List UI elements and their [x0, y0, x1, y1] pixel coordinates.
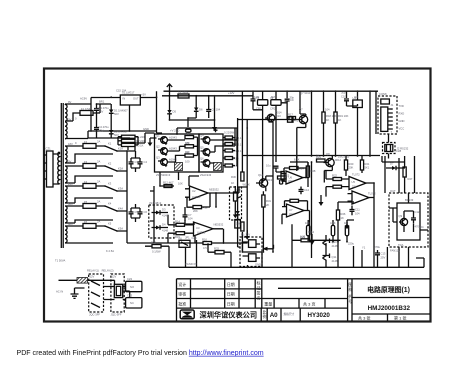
svg-text:K4: K4 [108, 202, 112, 206]
svg-text:IC1: IC1 [354, 95, 359, 99]
secondary winding S2 [65, 122, 67, 139]
svg-text:CZ2: CZ2 [127, 277, 133, 281]
svg-text:50V: 50V [114, 112, 119, 116]
drawing frame border [44, 69, 431, 322]
svg-text:9012: 9012 [335, 158, 341, 162]
svg-text:LM358: LM358 [197, 231, 206, 235]
svg-text:R28: R28 [311, 169, 316, 173]
resistor R19 [334, 112, 337, 123]
arrow node [262, 247, 268, 251]
svg-text:5K1: 5K1 [365, 166, 370, 170]
svg-text:U2: U2 [192, 189, 196, 193]
resistor R22 [333, 178, 342, 181]
relay dashed box RL2 [111, 274, 124, 312]
wire mid rails [290, 156, 312, 258]
svg-text:CR2: CR2 [270, 107, 276, 111]
switch K4 [105, 206, 127, 220]
bias resistor R8 [225, 143, 233, 146]
svg-text:Q7: Q7 [299, 108, 303, 112]
svg-text:K1: K1 [108, 142, 112, 146]
capacitor C10 [344, 99, 358, 106]
capacitor C7 [183, 211, 188, 221]
svg-text:U5: U5 [352, 180, 356, 184]
svg-text:324: 324 [352, 185, 357, 189]
wire bottom path [195, 229, 248, 243]
svg-text:D3: D3 [162, 208, 166, 212]
wire feedback [187, 193, 216, 207]
wire crystal bottom [238, 106, 292, 122]
capacitor C16 [274, 166, 279, 172]
capsule resistor RC2 [331, 225, 334, 236]
rail resistor RA [241, 172, 244, 181]
svg-text:AC9V: AC9V [80, 97, 87, 101]
svg-text:10K: 10K [236, 222, 241, 226]
svg-text:324: 324 [289, 212, 294, 216]
svg-text:R26: R26 [341, 212, 346, 216]
svg-text:1K: 1K [338, 118, 341, 122]
svg-text:C13: C13 [381, 252, 386, 256]
svg-text:电路原理图(1): 电路原理图(1) [367, 285, 410, 294]
svg-text:R19 10K: R19 10K [338, 114, 349, 118]
transistor Q9 [400, 218, 407, 225]
svg-text:Q8: Q8 [326, 152, 330, 156]
transistor pair Q11 [323, 254, 330, 261]
svg-text:F1 0.5A: F1 0.5A [81, 107, 91, 111]
stub component CZ [288, 117, 294, 122]
svg-text:104: 104 [188, 217, 193, 221]
secondary winding S4 [65, 166, 67, 183]
feedback resistor R24c [290, 199, 299, 202]
svg-text:NC: NC [130, 301, 134, 305]
svg-text:Q1: Q1 [156, 134, 160, 138]
svg-text:100: 100 [185, 159, 190, 163]
svg-text:NE5532: NE5532 [209, 188, 219, 192]
bias resistor R10 [225, 157, 233, 160]
diode D2 [109, 130, 113, 134]
svg-text:F4: F4 [84, 180, 88, 184]
resistor R12 [164, 185, 172, 188]
resistor R32 [152, 245, 161, 248]
transformer core [61, 103, 63, 248]
svg-text:T1 50VA: T1 50VA [55, 259, 65, 263]
svg-text:CZ5: CZ5 [192, 236, 198, 240]
bias resistor R11 [225, 164, 233, 167]
svg-text:IN: IN [123, 97, 126, 101]
wire right bus verticals [300, 91, 376, 156]
svg-text:F6: F6 [84, 220, 88, 224]
resistor R16 [203, 242, 212, 245]
wire q12 links [263, 176, 273, 252]
svg-text:324: 324 [288, 179, 293, 183]
svg-text:TXD: TXD [399, 104, 404, 108]
diode D1 [109, 110, 113, 114]
secondary winding S1 [65, 105, 67, 122]
svg-text:Q7 9013: Q7 9013 [300, 91, 311, 95]
capacitor C11 [350, 206, 355, 216]
wire bank left interconnect [168, 137, 198, 162]
svg-text:CON8: CON8 [379, 92, 387, 96]
op-amp U6 [286, 171, 303, 184]
svg-text:R27: R27 [408, 177, 413, 181]
bottom rail [177, 266, 425, 268]
svg-text:C14: C14 [304, 188, 309, 192]
junction dots scatter [90, 90, 375, 268]
svg-text:2A: 2A [97, 140, 100, 144]
wire rail risers [186, 240, 425, 267]
svg-text:NE5532: NE5532 [214, 223, 224, 227]
company logo [180, 310, 194, 319]
wire sense lines [160, 172, 199, 186]
svg-text:R20: R20 [349, 162, 354, 166]
transistor pair Q10 [323, 239, 330, 246]
secondary winding S3 [65, 146, 67, 163]
svg-text:48V: 48V [68, 222, 73, 226]
output dashed box [389, 193, 428, 247]
title block right section dividers [352, 298, 430, 322]
svg-text:Q9: Q9 [399, 214, 403, 218]
svg-text:1K5: 1K5 [285, 174, 290, 178]
svg-text:设计: 设计 [178, 281, 186, 287]
resistor R17 [289, 117, 296, 120]
fuse F1 [80, 111, 93, 116]
svg-text:样: 样 [348, 286, 352, 292]
svg-text:1K: 1K [316, 154, 319, 158]
svg-text:R18 10K: R18 10K [326, 114, 337, 118]
capsule resistor RC1 [307, 225, 310, 236]
resistor network RN1 [122, 135, 136, 138]
FOOTER [17, 350, 264, 357]
ic box U4 [353, 100, 363, 108]
rail wire A [238, 118, 241, 247]
svg-text:A1943: A1943 [169, 136, 177, 140]
svg-text:2SA1943: 2SA1943 [200, 173, 212, 177]
transistor Q12 [259, 179, 267, 187]
svg-text:9014: 9014 [308, 230, 314, 234]
svg-text:220u: 220u [348, 242, 354, 246]
svg-text:C2 470u: C2 470u [99, 125, 110, 129]
svg-text:CZ1: CZ1 [46, 147, 52, 151]
relay coil RL2 [114, 284, 122, 297]
svg-text:12M: 12M [254, 95, 260, 99]
secondary winding S7 [65, 226, 67, 243]
tap wires S7 [65, 226, 83, 243]
svg-text:JP1: JP1 [185, 236, 190, 240]
svg-text:D7: D7 [390, 162, 394, 166]
svg-text:9013: 9013 [266, 178, 272, 182]
svg-text:2A: 2A [97, 200, 100, 204]
svg-text:4148: 4148 [162, 214, 168, 218]
fuse F6 [83, 224, 96, 229]
resistor R25 [301, 239, 310, 242]
svg-text:J1: J1 [391, 103, 394, 107]
svg-text:36V: 36V [68, 202, 73, 206]
switch K5 [105, 226, 127, 243]
riser wire [269, 122, 274, 252]
svg-text:472: 472 [294, 119, 299, 123]
svg-text:24V: 24V [68, 182, 73, 186]
transistor Q4 [203, 137, 210, 144]
wire cap column [97, 104, 112, 138]
op-amp U2 [190, 186, 209, 200]
capacitor C4 [138, 158, 143, 168]
svg-text:2SC5200×3: 2SC5200×3 [156, 173, 171, 177]
capsule L2 [186, 129, 192, 132]
capacitor C2 [94, 123, 99, 134]
node plus [214, 128, 218, 132]
svg-text:+12V: +12V [228, 91, 235, 95]
transistor Q7 [299, 115, 307, 123]
diode D7 [392, 166, 396, 170]
resistor R20 [344, 160, 347, 170]
diode D4 [156, 226, 160, 230]
svg-text:GND: GND [143, 127, 149, 131]
svg-text:审核: 审核 [178, 291, 186, 297]
op-amp U7 [287, 204, 305, 217]
ground rail [245, 236, 250, 240]
svg-text:12V: 12V [112, 275, 117, 279]
wire resistor bottoms [297, 123, 336, 156]
svg-text:F2: F2 [84, 140, 88, 144]
title block row line 1 [177, 288, 262, 290]
svg-text:20K: 20K [349, 166, 354, 170]
resistor R14 [176, 223, 185, 226]
svg-text:GND: GND [399, 119, 405, 123]
title block outline [177, 279, 431, 321]
svg-text:C8 104: C8 104 [212, 108, 221, 112]
svg-text:深圳华谊仪表公司: 深圳华谊仪表公司 [200, 310, 258, 319]
svg-text:K6: K6 [179, 236, 183, 240]
tap wires upper [65, 104, 88, 139]
terminal box NO [126, 281, 142, 291]
svg-text:RELAY(1) RELAY(2): RELAY(1) RELAY(2) [87, 269, 114, 273]
svg-text:Q2: Q2 [156, 145, 160, 149]
primary winding [58, 152, 60, 184]
svg-text:日期: 日期 [227, 281, 235, 287]
svg-text:RL-12V: RL-12V [241, 233, 250, 237]
capacitor C12 [411, 214, 416, 224]
svg-text:K5A: K5A [118, 227, 123, 231]
title block row line 2 [177, 298, 348, 300]
svg-text:PGND 0V: PGND 0V [185, 262, 197, 266]
wire cap pair 2 [131, 204, 140, 222]
svg-text:日期: 日期 [227, 300, 235, 306]
resistor R27 [403, 167, 406, 177]
wire capsule links [308, 220, 347, 242]
svg-text:第 1 张: 第 1 张 [394, 314, 406, 320]
resistor R15 [176, 232, 185, 235]
svg-text:K2A: K2A [118, 167, 123, 171]
svg-text:18V: 18V [68, 142, 73, 146]
svg-text:10u: 10u [266, 164, 271, 168]
svg-text:IN4148×2: IN4148×2 [150, 201, 162, 205]
rail wire B [242, 91, 262, 252]
svg-text:30p: 30p [341, 90, 346, 94]
svg-text:Y1: Y1 [362, 246, 366, 250]
svg-text:TL072: TL072 [352, 173, 360, 177]
svg-text:名: 名 [257, 295, 261, 301]
title block right narrow column [348, 279, 352, 321]
resistor R34 [281, 172, 284, 181]
transistor Q2 [161, 148, 168, 155]
svg-text:25V: 25V [99, 129, 104, 133]
svg-text:F3: F3 [84, 160, 88, 164]
emitter arrows [165, 142, 211, 169]
connector dashed box [378, 96, 397, 134]
ground pot [233, 215, 238, 219]
ground regulator [148, 143, 153, 147]
resistor R33 [215, 251, 224, 254]
svg-text:GND: GND [255, 263, 261, 267]
resistor R28 vertical [306, 166, 309, 177]
svg-text:20K: 20K [193, 209, 198, 213]
wire cap to gnd [185, 207, 195, 224]
capacitor C6 [138, 208, 143, 218]
wire connector stubs [44, 152, 60, 184]
base resistor R6 [185, 154, 194, 157]
svg-text:Q6: Q6 [200, 157, 204, 161]
svg-text:重量: 重量 [264, 301, 272, 307]
transistor Q5 [203, 149, 210, 156]
wire bus drops [170, 96, 215, 127]
mains connector CZ1 [47, 151, 54, 187]
wire regulator gnd pin [129, 105, 131, 131]
socket dashed box [383, 143, 396, 154]
junction dots [110, 130, 112, 132]
wire r25 link [292, 211, 341, 241]
resistor R26 vertical [336, 210, 339, 220]
ground mid [345, 226, 350, 230]
wire r26 [338, 202, 354, 242]
svg-text:TDA: TDA [398, 243, 404, 247]
wire mains entry [59, 279, 99, 281]
svg-text:Q5: Q5 [200, 146, 204, 150]
svg-text:共 3 张: 共 3 张 [358, 314, 370, 320]
capsule resistor RC3 [345, 225, 348, 236]
fuse FU1 [77, 278, 88, 284]
svg-text:日期: 日期 [227, 291, 235, 297]
relay dashed box [240, 237, 262, 267]
svg-text:CR1: CR1 [256, 107, 262, 111]
svg-text:K2: K2 [108, 162, 112, 166]
svg-text:2A: 2A [97, 160, 100, 164]
resistor R23 [333, 185, 342, 188]
svg-text:CZ8: CZ8 [396, 149, 402, 153]
capacitor C14 [299, 187, 304, 195]
top bus wire [162, 91, 378, 96]
ground u6 [319, 202, 324, 206]
crystal X2 [271, 100, 281, 106]
svg-text:OUT: OUT [390, 189, 396, 193]
fuse F2 [83, 144, 96, 149]
resistor R18 [322, 112, 325, 123]
rail resistor RB [241, 222, 244, 231]
svg-text:4148: 4148 [332, 244, 338, 248]
zener D6 [194, 108, 198, 112]
svg-text:BD139: BD139 [405, 198, 414, 202]
title block column lines [191, 279, 262, 308]
diode D5 [167, 110, 171, 114]
svg-text:Q13: Q13 [276, 114, 282, 118]
wire r32 [145, 246, 177, 267]
switch K3 [105, 186, 127, 198]
svg-text:C12: C12 [415, 210, 420, 214]
inner block W1 [397, 203, 420, 240]
potentiometer RP1 [234, 192, 238, 201]
wire current sense path [145, 187, 247, 243]
tap wires S6 [65, 206, 83, 223]
wire lower rail [88, 131, 157, 138]
emitter resistor RE2 [214, 163, 222, 171]
wire bank right interconnect [210, 140, 225, 163]
base resistor R4 [185, 136, 194, 139]
svg-text:10K: 10K [178, 182, 183, 186]
svg-text:C10: C10 [341, 95, 346, 99]
transistor Q3 [161, 159, 168, 166]
feedback resistor R24 [290, 167, 299, 170]
crystal X1 [258, 100, 268, 106]
svg-text:D4: D4 [162, 223, 166, 227]
svg-text:R31: R31 [266, 199, 271, 203]
svg-text:CZ3: CZ3 [127, 293, 133, 297]
fuse F5 [83, 204, 96, 209]
svg-text:C4: C4 [144, 160, 148, 164]
svg-text:A1943: A1943 [169, 147, 177, 151]
socket J2 [385, 145, 393, 152]
wire mid vertical [150, 186, 154, 243]
secondary winding S6 [65, 206, 67, 223]
svg-text:2A: 2A [97, 220, 100, 224]
title block row line 3 [177, 307, 348, 309]
signature line [278, 287, 341, 289]
ground bus [212, 127, 217, 131]
svg-text:0.22/5W: 0.22/5W [224, 131, 234, 135]
relay dashed box RL1 [89, 274, 104, 312]
svg-text:4148: 4148 [162, 229, 168, 233]
wire dashed box feeds [389, 193, 428, 258]
svg-text:2K: 2K [266, 203, 269, 207]
bias resistor R9 [225, 149, 233, 152]
svg-text:+V 2SD: +V 2SD [170, 129, 179, 133]
svg-text:2A: 2A [97, 180, 100, 184]
svg-text:C15 104: C15 104 [116, 89, 127, 93]
ground arrow [310, 241, 315, 245]
svg-text:C6: C6 [144, 210, 148, 214]
capacitor C9 [285, 99, 290, 106]
contact pair B [249, 254, 257, 262]
contact box K6 [179, 240, 190, 247]
wire top feed [65, 98, 120, 132]
svg-text:250V: 250V [94, 107, 100, 111]
svg-text:批准: 批准 [178, 300, 186, 306]
resistor R31 [262, 195, 265, 207]
svg-text:470u: 470u [374, 245, 380, 249]
svg-text:规格尺寸: 规格尺寸 [284, 312, 295, 316]
regulator U1 [120, 95, 140, 105]
svg-text:BR1: BR1 [99, 100, 105, 104]
fuse F3 [83, 164, 96, 169]
capacitor C1 [94, 104, 99, 115]
wire right section rail [242, 134, 388, 171]
bank frame right [199, 134, 223, 172]
svg-text:30p: 30p [290, 96, 295, 100]
tap wires S4 [65, 166, 83, 183]
svg-text:8.2K: 8.2K [294, 158, 300, 162]
svg-text:R30: R30 [231, 175, 236, 179]
svg-text:K 2.5A: K 2.5A [106, 249, 114, 253]
svg-text:K1A: K1A [118, 147, 123, 151]
switch K2 [105, 166, 127, 176]
svg-text:104: 104 [325, 108, 330, 112]
